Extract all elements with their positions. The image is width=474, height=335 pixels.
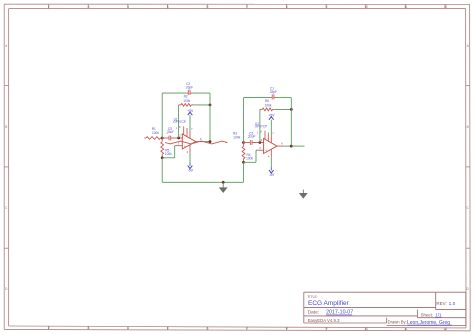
svg-text:+5V: +5V (268, 113, 275, 117)
svg-text:OP07CP: OP07CP (173, 120, 186, 124)
svg-text:9: 9 (326, 327, 328, 331)
node feedback junction at op-amp IN- (259, 141, 262, 144)
svg-text:8: 8 (179, 125, 181, 129)
svg-text:2: 2 (179, 134, 181, 138)
wire bottom ground rail (162, 181, 243, 183)
ground symbol GND (bottom rail) (222, 182, 224, 188)
op-amp output pin (196, 141, 204, 143)
node input junction (161, 137, 164, 140)
node feedback junction at op-amp IN- (177, 137, 180, 140)
svg-text:D: D (467, 287, 470, 291)
svg-text:OP07CP: OP07CP (255, 125, 268, 129)
svg-text:7: 7 (191, 127, 193, 131)
svg-text:100k: 100k (165, 152, 172, 156)
wire output column (209, 93, 211, 142)
node ground-side junction (242, 161, 245, 164)
wire stage1 ground-node to bottom rail (161, 158, 163, 183)
wire outer feedback top left (162, 92, 186, 94)
svg-text:B: B (5, 125, 7, 129)
svg-text:12: 12 (444, 327, 448, 331)
svg-text:100k: 100k (233, 135, 240, 139)
svg-text:+: + (265, 149, 267, 153)
svg-text:1: 1 (176, 126, 178, 130)
wire output column (290, 98, 292, 147)
svg-text:2: 2 (261, 138, 263, 142)
svg-text:3: 3 (88, 5, 90, 9)
op-amp U1 OP07CP triangle (182, 134, 195, 149)
svg-text:Drawn By:: Drawn By: (388, 320, 407, 325)
power -5V flag (189, 145, 191, 153)
sheet frame outer border (4, 3, 469, 5)
wire outer feedback top right (276, 97, 291, 99)
svg-text:-5V: -5V (269, 173, 275, 177)
svg-text:REV:: REV: (436, 301, 446, 306)
svg-text:2: 2 (48, 326, 50, 330)
resistor R2 100k (feedback) (179, 104, 181, 106)
svg-text:-: - (184, 137, 185, 141)
node feedback/output column junction (209, 104, 212, 107)
resistor R3 100k (226, 142, 228, 144)
svg-text:-: - (265, 141, 266, 145)
svg-text:EasyEDA V4.9.3: EasyEDA V4.9.3 (308, 318, 340, 323)
capacitor C5 33uF (polarized, series) (162, 137, 169, 139)
svg-text:1.0: 1.0 (449, 301, 456, 307)
wire cap to inverting input (252, 142, 264, 144)
svg-text:A: A (467, 44, 470, 48)
sheet frame inner border (9, 8, 466, 10)
capacitor C1 33pF (outer feedback) (270, 97, 272, 99)
svg-text:10: 10 (364, 327, 368, 331)
svg-text:100k: 100k (152, 131, 159, 135)
svg-text:11: 11 (404, 327, 408, 331)
wire outer feedback top right (192, 92, 210, 94)
wire feedback resistor to output node (194, 104, 211, 106)
svg-text:4: 4 (268, 154, 270, 158)
capacitor C3 33uF (polarized, series) (244, 142, 251, 144)
svg-text:100k: 100k (246, 156, 253, 160)
svg-text:C: C (467, 206, 470, 210)
resistor R1 100k (144, 137, 146, 139)
op-amp offset pins 1/8 (183, 126, 185, 134)
wire feedback resistor to output node (275, 108, 292, 110)
svg-text:4: 4 (127, 5, 129, 9)
op-amp output pin (277, 145, 285, 147)
svg-text:4: 4 (187, 150, 189, 154)
op-amp U2 OP07CP triangle (264, 139, 277, 154)
wire feedback left leg (259, 109, 261, 142)
svg-text:TITLE:: TITLE: (307, 295, 318, 299)
svg-text:8: 8 (286, 5, 288, 9)
title block borders (304, 291, 466, 293)
svg-text:2: 2 (48, 5, 50, 9)
svg-text:7: 7 (272, 131, 274, 135)
svg-text:6: 6 (207, 5, 209, 9)
frame row ticks (left and right) (4, 85, 8, 87)
svg-text:9: 9 (326, 5, 328, 9)
wire feedback left leg (178, 105, 180, 138)
svg-text:Date:: Date: (308, 310, 319, 315)
node output junction (209, 140, 212, 143)
svg-text:6: 6 (200, 137, 202, 141)
wire outer feedback left column (161, 93, 163, 138)
svg-text:7: 7 (246, 326, 248, 330)
wire outer feedback left column (243, 98, 245, 143)
svg-text:11: 11 (404, 5, 408, 9)
node ground-side junction (161, 156, 164, 159)
svg-text:ECG Amplifier: ECG Amplifier (308, 300, 350, 307)
node ground tap junction (222, 181, 225, 184)
svg-text:1/1: 1/1 (435, 313, 442, 318)
capacitor C2 33pF (outer feedback) (186, 92, 188, 94)
power +5V flag (189, 131, 191, 139)
svg-text:D: D (5, 287, 8, 291)
svg-text:4: 4 (127, 326, 129, 330)
resistor R4 100k (shunt to ground) (243, 143, 245, 147)
wire stage2 ground-node drop (243, 162, 245, 182)
wire cap to inverting input (171, 137, 183, 139)
svg-text:8: 8 (286, 327, 288, 331)
frame column ticks and numbers (bottom) (48, 326, 50, 329)
svg-text:12: 12 (444, 5, 448, 9)
frame column ticks and numbers (top) (48, 4, 50, 8)
svg-text:+: + (184, 144, 186, 148)
svg-text:33uF: 33uF (248, 135, 255, 139)
svg-text:33pF: 33pF (186, 85, 193, 89)
svg-text:7: 7 (246, 5, 248, 9)
power +5V flag (270, 135, 272, 143)
svg-text:5: 5 (167, 326, 169, 330)
svg-text:100k: 100k (265, 103, 272, 107)
wire non-inverting input to ground node (256, 149, 264, 151)
svg-text:A: A (5, 44, 8, 48)
resistor R5 100k (shunt to ground) (161, 138, 163, 142)
node output junction (290, 145, 293, 148)
svg-text:+5V: +5V (187, 109, 194, 113)
power -5V flag (270, 149, 272, 157)
svg-text:3: 3 (88, 326, 90, 330)
svg-text:6: 6 (207, 326, 209, 330)
svg-text:33uF: 33uF (167, 130, 174, 134)
wire non-inverting input to ground node (175, 145, 183, 147)
op-amp offset pins 1/8 (264, 131, 266, 139)
svg-text:Sheet:: Sheet: (421, 313, 433, 318)
node feedback/output column junction (290, 108, 293, 111)
svg-text:5: 5 (167, 5, 169, 9)
wire final output (291, 145, 304, 147)
svg-text:B: B (467, 125, 469, 129)
svg-text:33pF: 33pF (270, 90, 277, 94)
svg-text:-5V: -5V (188, 168, 194, 172)
node input junction (242, 141, 245, 144)
svg-text:100k: 100k (183, 99, 190, 103)
wire outer feedback top left (244, 97, 271, 99)
svg-text:1: 1 (257, 131, 259, 135)
svg-text:6: 6 (281, 142, 283, 146)
ground symbol GND (floating, lower right) (302, 190, 304, 194)
resistor R6 100k (feedback) (260, 108, 262, 110)
svg-text:8: 8 (260, 129, 262, 133)
svg-text:C: C (5, 206, 8, 210)
svg-text:10: 10 (364, 5, 368, 9)
svg-text:3: 3 (259, 146, 261, 150)
